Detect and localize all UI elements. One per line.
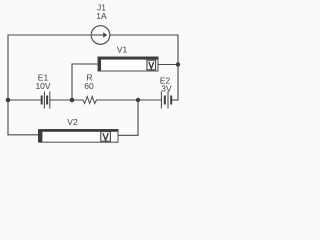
wire E1 to resistor R	[50, 99, 83, 101]
label E1 value 10V	[35, 73, 50, 92]
wire V2 right lead up to middle node	[118, 100, 138, 135]
svg-text:60: 60	[84, 81, 94, 91]
wire right vertical	[177, 35, 179, 100]
resistor R zigzag	[83, 97, 97, 104]
junction node V2 tap	[136, 98, 140, 102]
label R value 60	[84, 73, 94, 92]
wire top-left to current source	[8, 34, 91, 36]
voltmeter V2	[38, 130, 118, 143]
junction node left	[6, 98, 11, 103]
svg-text:1A: 1A	[96, 11, 107, 21]
wire left vertical	[7, 35, 9, 135]
wire E2 to right corner	[172, 99, 179, 101]
svg-text:3V: 3V	[161, 84, 172, 94]
current source J1 (circle with right arrow)	[91, 26, 110, 45]
battery E2	[161, 92, 171, 109]
wire V1 right lead to right vertical	[158, 64, 178, 66]
wire V1 left lead down to middle node	[72, 64, 98, 100]
wire bottom-left to V2	[8, 134, 39, 136]
battery E1	[42, 92, 50, 109]
wire middle left: node to E1	[8, 99, 41, 101]
wire resistor R to E2	[97, 99, 162, 101]
label J1 value 1A	[96, 3, 107, 22]
label V2	[67, 117, 78, 127]
label V1	[117, 45, 128, 55]
label E2 value 3V	[160, 76, 172, 94]
voltmeter V1	[98, 57, 158, 71]
svg-text:V2: V2	[67, 117, 78, 127]
junction node right	[176, 62, 180, 66]
wire current source to top-right corner	[110, 34, 178, 36]
svg-text:10V: 10V	[35, 81, 50, 91]
svg-text:V1: V1	[117, 45, 128, 55]
junction node V1 tap	[70, 98, 75, 103]
